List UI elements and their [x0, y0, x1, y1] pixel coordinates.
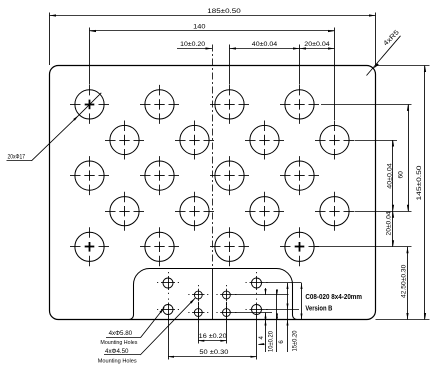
svg-text:50 ±0.30: 50 ±0.30	[199, 349, 228, 356]
dim 140 top	[89, 28, 91, 85]
svg-text:15±0.20: 15±0.20	[292, 330, 298, 352]
pocket divider line x=212	[212, 268, 214, 319]
small arrow near 50-ext	[258, 343, 264, 345]
hole R4C1 (phi17)	[105, 192, 144, 231]
hole R4C4 (phi17)	[315, 192, 354, 231]
right extension line row A	[321, 104, 412, 106]
hole R3C1 (phi17)	[70, 156, 109, 195]
svg-text:145±0.50: 145±0.50	[416, 165, 423, 200]
dim 15+-0.20 (vertical small)	[287, 283, 289, 352]
svg-text:185±0.50: 185±0.50	[207, 8, 241, 15]
mounting hole M1 phi5.8	[157, 272, 179, 294]
hole R1C2 (phi17)	[140, 85, 179, 124]
hole R1C3 (phi17)	[210, 85, 249, 124]
svg-text:20xΦ17: 20xΦ17	[8, 153, 26, 160]
dim 50+-0.30	[168, 356, 257, 358]
right extension line row E	[315, 246, 412, 248]
plate outline 185x145 rounded R5	[50, 66, 376, 320]
note 4xR5 corner callout	[367, 36, 401, 76]
svg-text:10±0.20: 10±0.20	[269, 330, 275, 352]
hole R4C3 (phi17)	[245, 192, 284, 231]
svg-text:20±0.04: 20±0.04	[386, 211, 393, 235]
mounting hole M7 phi4.5	[216, 285, 236, 305]
aux dim line x=301.5	[301, 283, 303, 320]
hole R5C3 (phi17)	[210, 227, 249, 266]
hole R2C4 (phi17)	[315, 121, 354, 160]
svg-text:4xΦ4.50: 4xΦ4.50	[105, 348, 129, 355]
mounting hole M5 phi4.5	[188, 285, 208, 305]
extension line from M4 phi5.8	[264, 309, 300, 311]
dim 20+-0.04 right	[392, 211, 394, 218]
hole R2C3 (phi17)	[245, 121, 284, 160]
svg-text:C08-020 8x4-20mm: C08-020 8x4-20mm	[305, 294, 362, 301]
svg-text:10±0.20: 10±0.20	[180, 41, 205, 48]
extension lines 16/50 dims	[198, 302, 200, 344]
dim 60 right	[408, 104, 410, 211]
hole R1C4 (phi17)	[280, 85, 319, 124]
mounting hole M8 phi4.5	[216, 303, 236, 323]
svg-text:20±0.04: 20±0.04	[304, 41, 330, 48]
bottom edge extension right	[376, 319, 430, 321]
top edge extension right	[376, 65, 430, 67]
svg-text:Mounting Holes: Mounting Holes	[100, 340, 137, 346]
svg-text:16 ±0.20: 16 ±0.20	[199, 333, 227, 340]
hole R1C1 (phi17)	[70, 85, 109, 124]
hole R5C1 (phi17)	[70, 227, 109, 266]
hole R2C2 (phi17)	[175, 121, 214, 160]
right extension line row D	[355, 211, 412, 213]
mounting hole M3 phi5.8	[246, 272, 268, 294]
dim 185+-0.50 top	[49, 13, 51, 66]
pocket outline (bottom recessed area)	[129, 269, 296, 320]
hole R2C1 (phi17)	[105, 121, 144, 160]
extension line from M3 phi5.8	[264, 282, 302, 284]
hole R3C2 (phi17)	[140, 156, 179, 195]
dim 6 (vertical small)	[276, 290, 278, 353]
svg-text:140: 140	[193, 24, 206, 31]
extension line from M7 phi4.5	[233, 294, 289, 296]
extension line from M8 phi4.5	[233, 312, 272, 314]
svg-text:40±0.04: 40±0.04	[387, 163, 394, 189]
mounting hole M2 phi5.8	[157, 299, 179, 321]
dims 10 / 40 / 20 top	[229, 45, 231, 85]
dim 42.50+-0.30 right	[407, 247, 409, 320]
hole R5C4 (phi17)	[280, 227, 319, 266]
hole R4C2 (phi17)	[175, 192, 214, 231]
svg-text:40±0.04: 40±0.04	[252, 41, 278, 48]
dim 40+-0.04 right	[392, 140, 394, 247]
svg-text:4xΦ5.80: 4xΦ5.80	[109, 330, 133, 337]
svg-text:Mounting Holes: Mounting Holes	[98, 359, 137, 365]
hole R3C3 (phi17)	[210, 156, 249, 195]
dim 10+-0.20 (vertical small)	[265, 288, 267, 295]
svg-text:60: 60	[398, 171, 405, 179]
svg-text:42.50±0.30: 42.50±0.30	[400, 264, 407, 298]
mounting hole M6 phi4.5	[188, 303, 208, 323]
hole R5C2 (phi17)	[140, 227, 179, 266]
hole R3C4 (phi17)	[280, 156, 319, 195]
right extension line row B	[355, 140, 398, 142]
mounting hole M4 phi5.8	[246, 299, 268, 321]
centerline (dashed) x=212	[212, 45, 214, 269]
svg-text:Version B: Version B	[305, 306, 332, 313]
dim 16+-0.20	[198, 340, 226, 342]
dim 145+-0.50 right	[424, 66, 426, 320]
